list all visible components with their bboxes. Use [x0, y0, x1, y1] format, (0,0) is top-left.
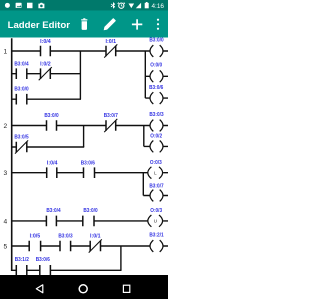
output branch vertical rung2 x=143.8 [143, 126, 145, 147]
svg-text:B3:1/2: B3:1/2 [15, 257, 29, 263]
navigation bar [0, 275, 168, 299]
svg-text:B3:0/6: B3:0/6 [149, 85, 163, 91]
svg-text:B3:0/7: B3:0/7 [104, 113, 118, 119]
latch coil O:0/3 (L) [148, 167, 163, 179]
svg-text:B3:0/5: B3:0/5 [14, 135, 28, 141]
left power rail [11, 38, 13, 271]
rung numbers [4, 48, 8, 250]
svg-text:B3:0/7: B3:0/7 [149, 183, 163, 189]
svg-text:L: L [154, 171, 157, 177]
contact I:0/4 rung3 [47, 167, 57, 178]
svg-text:B3:0/4: B3:0/4 [14, 61, 28, 67]
svg-text:O:0/3: O:0/3 [150, 208, 162, 214]
contact B3:0/6 rung3 [84, 167, 95, 178]
branch join vertical rung1 x=80.4 [79, 51, 81, 99]
nav home button [79, 285, 87, 293]
status bar [0, 0, 168, 11]
contact B3:0/3 rung5 [60, 241, 71, 252]
svg-text:I:0/1: I:0/1 [106, 39, 117, 45]
contact I:0/2 (NC) [41, 68, 51, 79]
coil B3:0/3 [150, 120, 163, 132]
svg-text:B3:0/0: B3:0/0 [83, 208, 97, 214]
wire rung1 coil row3 [145, 97, 168, 99]
wire rung2 row2 [12, 146, 85, 148]
svg-text:5: 5 [4, 243, 8, 250]
svg-text:B3:0/4: B3:0/4 [46, 208, 60, 214]
contact B3:0/6 rung5 row2 [40, 265, 51, 275]
contact I:0/1 (NC) [106, 46, 116, 57]
svg-text:I:0/2: I:0/2 [40, 61, 51, 67]
svg-text:B3:0/6: B3:0/6 [81, 161, 95, 167]
svg-text:B3:0/3: B3:0/3 [58, 233, 72, 239]
svg-text:I:0/5: I:0/5 [30, 233, 41, 239]
wire rung5 main [12, 245, 168, 247]
contact I:0/5 [29, 241, 40, 252]
svg-text:I:0/1: I:0/1 [90, 233, 101, 239]
contact B3:0/4 [16, 68, 27, 79]
svg-text:2: 2 [4, 123, 8, 130]
contact B3:0/5 (NC) [16, 142, 27, 153]
address labels (blue) [14, 38, 163, 264]
branch join vertical rung2 x=83.6 [83, 126, 85, 148]
contact B3:1/2 [16, 265, 27, 275]
NC slash I:0/1 rung5 [89, 239, 102, 252]
contact B3:0/7 (NC) [106, 120, 116, 131]
svg-text:Ladder Editor: Ladder Editor [8, 20, 71, 31]
svg-text:I:0/4: I:0/4 [47, 161, 58, 167]
wire rung5 row2 [12, 269, 122, 271]
svg-text:B3:0/0: B3:0/0 [149, 38, 163, 44]
svg-text:O:0/2: O:0/2 [150, 134, 162, 140]
nav back button [36, 285, 43, 293]
contact B3:0/4 rung4 [46, 216, 56, 227]
svg-text:I:0/4: I:0/4 [40, 39, 51, 45]
wire rung1 row3 [12, 98, 81, 100]
wire rung2 main [12, 125, 168, 127]
page background [0, 0, 168, 299]
svg-text:B3:2/1: B3:2/1 [149, 233, 163, 239]
NC slash I:0/1 [104, 44, 117, 57]
wire rung1 coil row2 [145, 75, 168, 77]
wire rung4 main [12, 220, 168, 222]
contact I:0/1 rung5 (NC) [90, 241, 100, 252]
ladder diagram [12, 38, 168, 275]
contact B3:0/0 rung4 [83, 216, 94, 227]
wire rung3 coil row2 [143, 195, 168, 197]
unlatch coil O:0/3 (U) [148, 215, 163, 227]
pencil icon [104, 18, 116, 30]
coil letters [154, 171, 158, 225]
output branch vertical rung3 x=143.3 [142, 173, 144, 196]
svg-text:4:16: 4:16 [152, 3, 165, 10]
nav recents button [123, 285, 129, 292]
overflow menu dots [157, 19, 159, 30]
wire rung1 main [12, 50, 168, 52]
svg-text:1: 1 [4, 48, 8, 55]
svg-text:B3:0/6: B3:0/6 [36, 257, 50, 263]
svg-text:4: 4 [4, 218, 8, 225]
NC slash B3:0/7 [104, 119, 117, 132]
contact B3:0/0 row3 [16, 94, 27, 105]
svg-text:O:0/0: O:0/0 [150, 63, 162, 69]
coil B3:0/6 [150, 92, 163, 104]
coil B3:0/0 [150, 45, 163, 57]
app bar [0, 11, 168, 38]
coil B3:0/7 [150, 190, 163, 202]
contact B3:0/0 rung2 [47, 120, 57, 131]
svg-text:O:0/3: O:0/3 [150, 160, 162, 166]
wire rung3 main [12, 172, 168, 174]
output branch vertical rung1 x=145.3 [144, 51, 146, 98]
svg-text:U: U [154, 219, 158, 225]
wire rung2 coil row2 [144, 145, 168, 147]
svg-text:3: 3 [4, 170, 8, 177]
coil O:0/2 [150, 141, 163, 153]
wire rung1 row2 [12, 73, 81, 75]
svg-text:B3:0/3: B3:0/3 [149, 112, 163, 118]
svg-text:B3:0/0: B3:0/0 [44, 113, 58, 119]
plus icon [132, 19, 142, 29]
svg-text:B3:0/0: B3:0/0 [14, 87, 28, 93]
coil O:0/0 [150, 70, 163, 82]
branch join vertical rung5 x=120.9 [120, 246, 122, 270]
coil B3:2/1 [150, 240, 163, 252]
NC slash B3:0/5 [15, 140, 28, 153]
contact I:0/4 [41, 46, 51, 57]
trash icon [81, 18, 87, 30]
NC slash I:0/2 [39, 67, 52, 80]
